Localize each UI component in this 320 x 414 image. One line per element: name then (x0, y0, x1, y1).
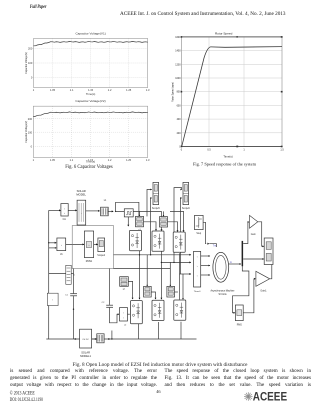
svg-text:1: 1 (243, 149, 245, 152)
svg-text:Time(s): Time(s) (86, 92, 95, 96)
svg-text:C2: C2 (102, 302, 106, 304)
svg-text:›: › (61, 243, 62, 247)
svg-text:Three1: Three1 (194, 290, 202, 293)
svg-text:SOLAR: SOLAR (81, 350, 90, 354)
svg-text:C1: C1 (65, 295, 69, 297)
svg-text:s2: s2 (124, 325, 127, 327)
svg-text:SOLAR: SOLAR (77, 189, 86, 193)
svg-text:Fig. 6 Capacitor Voltages: Fig. 6 Capacitor Voltages (65, 165, 113, 170)
svg-text:CH DC: CH DC (82, 339, 89, 341)
svg-text:Asynchronous Machine: Asynchronous Machine (211, 290, 236, 293)
svg-text:100: 100 (28, 130, 33, 134)
svg-text:Step: Step (196, 232, 201, 235)
svg-text:MODEL1: MODEL1 (80, 354, 91, 358)
svg-text:Gain1: Gain1 (260, 291, 267, 293)
svg-text:Capacitor Voltage(V): Capacitor Voltage(V) (25, 121, 28, 143)
svg-text:1200: 1200 (175, 63, 181, 66)
svg-text:1.3: 1.3 (146, 158, 150, 162)
svg-text:© 2013 ACEEE: © 2013 ACEEE (10, 390, 35, 396)
svg-text:Vo: Vo (60, 254, 63, 256)
svg-text:Capacitor Voltage(V2): Capacitor Voltage(V2) (75, 99, 105, 103)
svg-text:RMS1: RMS1 (86, 261, 93, 263)
svg-text:L1: L1 (104, 200, 107, 202)
svg-text:Scope2: Scope2 (97, 255, 106, 257)
svg-text:0: 0 (181, 149, 183, 152)
svg-text:›: › (64, 211, 65, 215)
svg-text:Rotor Speed (rpm): Rotor Speed (rpm) (172, 82, 175, 102)
svg-text:1.05: 1.05 (50, 88, 56, 92)
svg-text:Time(s): Time(s) (223, 155, 232, 159)
svg-text:1: 1 (33, 88, 35, 92)
svg-text:800: 800 (177, 91, 182, 94)
svg-text:1.2: 1.2 (108, 88, 112, 92)
svg-text:600: 600 (177, 104, 182, 107)
svg-text:Capacitor Voltage(V1): Capacitor Voltage(V1) (75, 32, 105, 36)
svg-text:Scope5: Scope5 (152, 208, 161, 210)
svg-text:1.1: 1.1 (70, 158, 74, 162)
svg-text:400: 400 (177, 118, 182, 121)
svg-text:SI Units: SI Units (218, 293, 227, 296)
svg-text:0: 0 (31, 76, 33, 80)
svg-text:Tm: Tm (213, 246, 216, 248)
svg-text:1.05: 1.05 (50, 158, 56, 162)
svg-text:Fig. 7 Speed response of the s: Fig. 7 Speed response of the system (193, 161, 257, 166)
svg-text:0: 0 (31, 145, 33, 149)
svg-text:Cin: Cin (63, 219, 67, 221)
svg-text:1400: 1400 (175, 50, 181, 53)
svg-text:Capacitor Voltage(V): Capacitor Voltage(V) (25, 52, 28, 74)
svg-text:1600: 1600 (175, 36, 181, 39)
svg-text:Rotor Speed: Rotor Speed (215, 32, 233, 36)
svg-text:m: m (230, 262, 232, 264)
svg-text:1.2: 1.2 (108, 158, 112, 162)
svg-text:1000: 1000 (175, 77, 181, 80)
svg-text:0.5: 0.5 (207, 149, 211, 152)
svg-text:›: › (64, 206, 65, 210)
svg-text:200: 200 (28, 117, 33, 121)
svg-text:MODEL: MODEL (76, 192, 86, 196)
svg-text:g1: g1 (123, 289, 126, 291)
svg-text:D: D (73, 275, 75, 277)
svg-text:200: 200 (28, 47, 33, 51)
svg-text:Gain: Gain (251, 234, 257, 236)
svg-text:Scope6: Scope6 (182, 208, 191, 210)
svg-text:100: 100 (28, 61, 33, 65)
svg-text:1: 1 (33, 158, 35, 162)
svg-text:1.3: 1.3 (146, 88, 150, 92)
svg-text:Full Paper: Full Paper (30, 4, 47, 10)
svg-text:1.25: 1.25 (126, 88, 132, 92)
svg-text:1.1: 1.1 (70, 88, 74, 92)
svg-text:DOI: 01.IJCSI.4.2.1190: DOI: 01.IJCSI.4.2.1190 (10, 398, 43, 403)
svg-text:RMS: RMS (237, 325, 243, 327)
svg-text:200: 200 (177, 132, 182, 135)
svg-text:Time(s): Time(s) (86, 159, 95, 163)
svg-text:1.5: 1.5 (280, 149, 284, 152)
svg-text:ACEEE: ACEEE (253, 390, 287, 404)
svg-text:1.25: 1.25 (126, 158, 132, 162)
